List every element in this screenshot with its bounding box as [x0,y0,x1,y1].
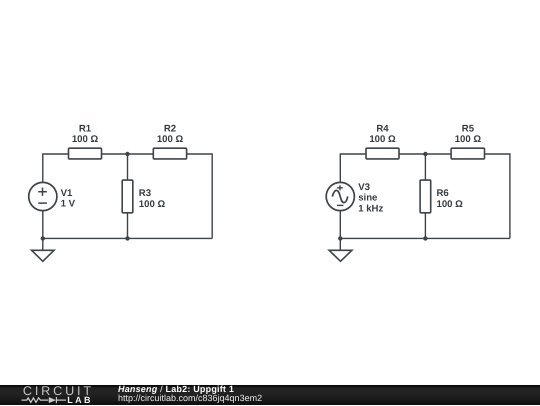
svg-text:100 Ω: 100 Ω [437,199,464,210]
junction node B top [423,152,427,156]
wire V3 bottom to bottom rail [339,211,341,239]
wire left vertical + top-left segment (V3 to R4) [340,154,366,183]
wire left vertical + top-left segment (V1 to R1) [43,154,69,183]
R6 label [437,188,464,210]
junction node A top [125,152,129,156]
svg-text:100 Ω: 100 Ω [369,134,396,145]
R5 label [455,123,482,145]
footer bar [0,385,540,405]
svg-text:100 Ω: 100 Ω [455,134,482,145]
svg-text:1 V: 1 V [61,199,76,210]
svg-text:R1: R1 [79,123,92,134]
resistor R2 [153,148,186,159]
voltage source V1 [29,182,57,210]
svg-text:R4: R4 [376,123,389,134]
svg-text:1 kHz: 1 kHz [358,203,383,214]
resistor R6 [420,180,431,213]
svg-text:LAB: LAB [67,395,93,405]
resistor R5 [451,148,484,159]
CircuitLab logo resistor zigzag and diode [22,397,67,403]
resistor R4 [366,148,399,159]
voltage source V3 sine [326,182,354,210]
footer credit text [118,385,262,403]
wire R2 to right rail [187,154,213,238]
svg-text:R2: R2 [164,123,176,134]
svg-text:R5: R5 [462,123,475,134]
junction node bottom middle right [423,236,427,240]
CircuitLab logo wordmark CIRCUIT [23,384,94,398]
wire bottom rail left circuit [43,237,212,239]
wire R5 to right rail [485,154,510,238]
resistor R3 [122,180,133,213]
wire bottom rail right circuit [340,237,510,239]
ground right [329,250,352,261]
R4 label [369,123,396,145]
wire R3 bottom to bottom rail [127,213,129,239]
wire ground stub left [42,238,44,250]
V3 label [358,182,383,214]
junction node bottom middle [125,236,129,240]
V1 label [61,188,76,210]
resistor R1 [69,148,102,159]
wire R1 to R2 through node A [102,153,154,155]
svg-text:V3: V3 [358,182,370,193]
wire R4 to R5 through node B [399,153,451,155]
wire node A to R3 top [127,154,129,180]
svg-text:R3: R3 [139,188,151,199]
CircuitLab logo wordmark LAB [67,395,93,405]
svg-text:100 Ω: 100 Ω [157,134,184,145]
svg-text:R6: R6 [437,188,449,199]
svg-text:V1: V1 [61,188,73,199]
R3 label [139,188,166,210]
svg-text:100 Ω: 100 Ω [72,134,99,145]
R1 label [72,123,99,145]
wire R6 bottom to bottom rail [424,213,426,239]
svg-text:sine: sine [358,193,377,204]
wire ground stub right [339,238,341,250]
wire V1 bottom to bottom rail [42,211,44,239]
wire node B to R6 top [424,154,426,180]
svg-text:100 Ω: 100 Ω [139,199,166,210]
ground left [32,250,54,261]
R2 label [157,123,184,145]
junction node bottom left [41,236,45,240]
junction node bottom left right-circuit [338,236,342,240]
